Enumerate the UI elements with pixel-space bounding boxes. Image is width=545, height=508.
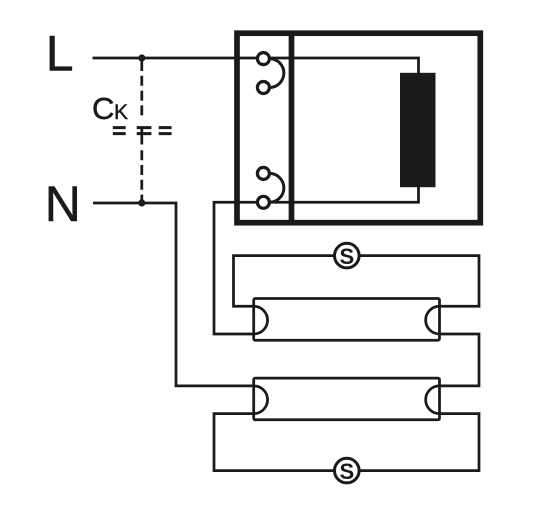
svg-text:C: C	[92, 91, 114, 126]
svg-text:S: S	[339, 244, 354, 269]
node junction on L wire	[138, 54, 145, 61]
ballast box internal divider	[289, 31, 295, 226]
terminal pair top: arc	[269, 59, 283, 88]
svg-text:K: K	[114, 101, 128, 124]
terminal pair bottom: circle 2	[257, 196, 269, 208]
lamp LA1 tube	[254, 299, 440, 341]
starter S1 body	[335, 243, 360, 268]
starter S1 loop wire	[234, 256, 480, 307]
choke coil (black bar)	[400, 73, 436, 187]
wire L (phase line into ballast and to choke top)	[93, 58, 419, 74]
starter S2 loop wire	[214, 414, 479, 471]
lamp LA2 left electrode	[254, 386, 268, 414]
wire N (neutral line, turns down to lamp 2)	[93, 203, 254, 386]
capacitor CK dashed connection wire	[140, 61, 143, 203]
starter S2 body	[335, 458, 360, 483]
svg-text:S: S	[339, 459, 354, 484]
lamp LA2 right electrode	[426, 386, 440, 414]
terminal pair top: circle 1	[257, 53, 269, 65]
ballast box outline	[237, 33, 480, 223]
terminal pair bottom: circle 1	[257, 167, 269, 179]
link wire lamp1 right to lamp2 right	[440, 334, 480, 386]
terminal pair top: circle 2	[257, 82, 269, 94]
node junction on N wire	[138, 199, 145, 206]
capacitor CK stem	[140, 127, 143, 145]
lamp LA1 right electrode	[426, 306, 440, 334]
lamp LA1 left electrode	[254, 306, 268, 334]
wire choke bottom return (to box exit and down to lamp 1)	[214, 186, 419, 334]
lamp LA2 tube	[254, 378, 440, 420]
capacitor CK top plate	[113, 126, 172, 129]
capacitor CK bottom plate	[113, 132, 172, 135]
svg-text:L: L	[46, 26, 74, 82]
svg-text:N: N	[45, 176, 81, 232]
terminal pair bottom: arc	[269, 173, 283, 202]
